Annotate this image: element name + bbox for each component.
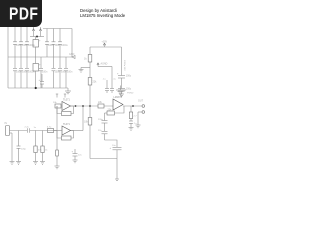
svg-text:+: + [72,151,74,154]
capacitor C23 electrolytic [110,145,122,150]
wire jack ground leg [10,133,13,162]
op-amp U1 [62,99,71,111]
wire U1 output to amp [71,105,114,107]
wire bottom rail V- [8,87,68,89]
connector J2 power input stub A [32,27,34,37]
wire amp output [123,105,142,107]
capacitor C2 [19,27,28,57]
node power bus junction [36,36,38,38]
resistor R2 [88,78,97,86]
resistor R12 zobel [129,106,137,119]
svg-text:100u: 100u [126,88,132,91]
capacitor C19 decoupling [103,79,110,94]
capacitor C5 [45,29,54,58]
ground C26 [73,160,78,163]
svg-text:+: + [110,147,112,150]
wire V+ rail to amp [90,46,122,48]
resistor R4 U1 feedback [57,106,74,116]
svg-text:+: + [39,40,41,43]
capacitor C1 [13,27,22,57]
svg-text:100n: 100n [48,44,54,47]
node GND flag with label [97,63,108,67]
wire mid rail GND [8,56,72,58]
ground at R1 [79,68,84,73]
resistor R11 shunt [41,131,48,162]
svg-text:100n: 100n [55,44,61,47]
svg-text:47k: 47k [38,150,42,152]
capacitor C4 electrolytic box [33,37,41,58]
capacitor C9 [19,57,28,88]
capacitor C17 electrolytic PSU [117,47,132,78]
capacitor C10 [25,57,35,88]
svg-text:LM1875: LM1875 [114,96,123,99]
ground zobel [129,128,134,131]
svg-text:PGND: PGND [127,93,134,95]
svg-text:22k: 22k [93,81,98,84]
capacitor C26 shunt mid [72,149,83,160]
capacitor C6 [52,29,61,58]
capacitor C24 input series [25,127,37,133]
svg-text:IN: IN [5,122,8,125]
svg-text:100n: 100n [67,71,73,74]
ground bottom return [115,179,119,180]
wire feedback column [105,113,118,147]
svg-text:10k: 10k [53,102,57,104]
op-amp U2 [62,123,71,135]
node bottom rail junction [35,87,37,89]
svg-text:1k: 1k [84,58,87,61]
svg-text:+35V: +35V [102,41,108,44]
svg-text:TL071: TL071 [63,123,70,126]
op-amp U3 LM1875 [113,96,123,110]
wire top rail V+ [43,28,72,30]
capacitor C18 electrolytic PSU [118,78,132,91]
resistor R8 series amp input [98,101,104,108]
wire branch to ground [81,67,90,69]
connector J1 input jack [5,122,10,136]
wire OUT ground leg [137,112,139,125]
svg-text:10u: 10u [112,145,116,147]
resistor R5 series U2 input [47,127,62,133]
svg-text:100n: 100n [55,71,61,74]
svg-text:1000u 50V: 1000u 50V [123,60,125,71]
capacitor C7 [58,29,68,58]
capacitor C22 [98,130,108,134]
capacitor C15 [64,57,73,88]
capacitor C12 [39,57,48,88]
wire right column [71,29,73,58]
svg-text:22u: 22u [78,155,82,157]
ground R11 [40,162,45,165]
capacitor C20 decoupling [110,79,117,94]
connector OUT pin 1 [138,100,145,108]
svg-text:220p: 220p [21,149,27,151]
capacitor C13 [52,57,61,88]
wire power input bus [30,36,44,38]
ground PSU caps [119,91,124,97]
PDF badge [0,0,42,27]
capacitor C16 electrolytic [39,74,45,88]
ground left block [65,88,71,94]
wire input node column [56,106,58,131]
wire left column [7,27,9,88]
capacitor C27 zobel [129,119,137,128]
resistor R9 feedback LM1875 [105,106,125,115]
svg-text:4.7u: 4.7u [47,127,52,129]
resistor R13 shunt to ground [55,131,60,169]
node V+ power flag [102,41,108,48]
ground OUT [136,125,141,128]
svg-text:1k: 1k [45,150,48,152]
svg-text:2.2u: 2.2u [25,127,30,129]
capacitor C21 [98,119,108,123]
wire bottom return [90,150,117,179]
capacitor C25 shunt [17,131,27,162]
svg-text:OUT: OUT [138,100,144,103]
ground R10 [33,162,38,165]
capacitor C11 electrolytic box [33,57,41,88]
svg-text:1u: 1u [34,127,37,129]
resistor R3 series U1 input [53,102,62,108]
svg-text:TL071: TL071 [63,99,70,102]
title text [80,8,125,18]
node junction B [89,105,91,107]
wire stub to feedback column [98,67,112,86]
node U1 supply stub B [64,94,66,98]
svg-text:PDF: PDF [9,5,39,24]
node U1 supply stub A [56,94,58,98]
resistor R1 [84,55,92,63]
capacitor C8 [13,57,22,88]
svg-text:1000u: 1000u [61,44,68,47]
svg-text:100u: 100u [126,75,132,78]
node junction A0 [75,105,77,107]
capacitor C14 [58,57,67,88]
resistor R10 shunt [34,131,43,162]
svg-text:AGND: AGND [101,63,108,66]
svg-text:100n: 100n [42,71,48,74]
svg-text:220p: 220p [98,119,104,121]
node GND flag mid rail [69,53,75,59]
ground amp top [116,86,134,95]
svg-text:2.7: 2.7 [134,116,138,118]
wire input signal line [10,130,58,132]
ground C25 [16,162,21,165]
connector OUT pin 2 [138,111,145,114]
svg-text:.1u: .1u [113,79,117,81]
connector J2 power input stub B [39,27,41,37]
node junction A [82,105,84,107]
resistor R7 [84,118,92,126]
wire U2 output [71,106,84,131]
node output junction [132,105,134,107]
svg-text:22k: 22k [98,101,103,104]
ground jack [10,162,15,165]
resistor R6 U2 feedback [57,131,74,141]
svg-text:GND: GND [69,53,75,56]
svg-text:+: + [117,73,119,76]
svg-text:.1u: .1u [103,79,107,81]
capacitor C3 [25,27,35,57]
wire input chain column [89,47,91,159]
